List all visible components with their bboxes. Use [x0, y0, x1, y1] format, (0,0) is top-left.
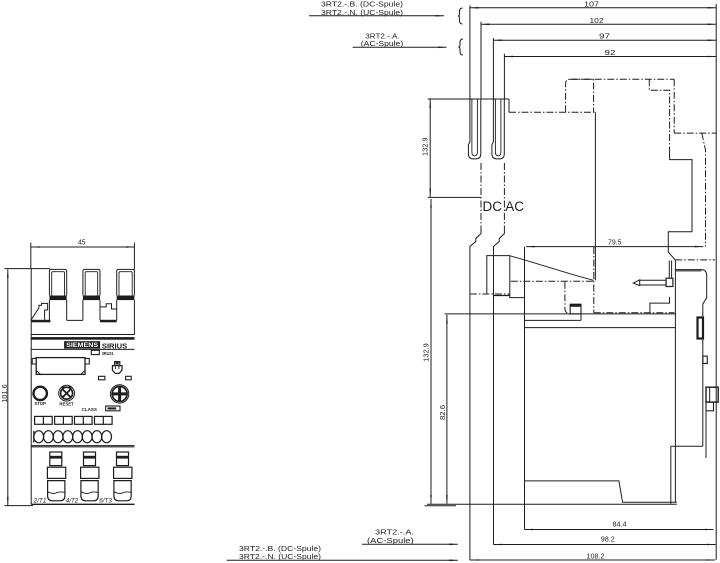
body top line	[31, 334, 134, 336]
contactor phantom: rounded block	[566, 79, 594, 112]
terminal column 2	[81, 452, 99, 501]
tower T2	[83, 269, 100, 295]
svg-text:STOP: STOP	[34, 401, 46, 406]
solid rear top contour	[668, 150, 692, 260]
staircase below pin	[650, 297, 670, 313]
dim 107	[470, 7, 716, 9]
terminal column 1	[47, 452, 65, 501]
DC coil clip (hook)	[468, 99, 480, 159]
rear solid edge of upper housing	[594, 112, 596, 280]
dim 92	[504, 56, 716, 58]
rear housing right edge	[674, 260, 676, 446]
right edge extension line	[715, 4, 717, 560]
DIN rail clip lower	[706, 387, 718, 402]
RESET button	[59, 385, 75, 401]
svg-text:3RT2.-.N. (UC-Spule): 3RT2.-.N. (UC-Spule)	[239, 552, 321, 561]
dimension 101.6 extension lines	[5, 269, 51, 506]
DC clip outer edge / extension to dim 102	[480, 22, 482, 99]
svg-text:45: 45	[78, 238, 86, 247]
terminal column 3	[114, 452, 132, 501]
dim 132.9 lower	[430, 199, 432, 504]
svg-text:2/T1: 2/T1	[33, 497, 47, 504]
contactor phantom right edge	[673, 79, 675, 133]
svg-text:101.6: 101.6	[0, 384, 9, 403]
label leader (AC)	[353, 46, 447, 48]
dim 79.5	[526, 246, 703, 248]
body bottom	[525, 481, 677, 502]
dim 82.6	[446, 315, 448, 504]
svg-text:97: 97	[599, 32, 610, 41]
contactor phantom step	[649, 79, 669, 150]
mounting plane line	[427, 503, 677, 505]
two small rectangles	[99, 376, 105, 380]
front panel lines of body	[524, 320, 675, 327]
extension line (coil face)	[428, 196, 481, 198]
svg-text:3RU21: 3RU21	[102, 351, 114, 356]
device left edge	[30, 269, 32, 505]
svg-text:CLASS: CLASS	[82, 407, 97, 412]
svg-text:3RT2.-.N. (UC-Spule): 3RT2.-.N. (UC-Spule)	[321, 8, 403, 17]
rear dash line	[675, 259, 715, 261]
rear foot	[671, 446, 676, 504]
dim 132.9 upper	[429, 100, 431, 197]
label leader (DC/UC)	[309, 15, 444, 17]
dimension 45 extension lines	[31, 243, 135, 271]
label window	[36, 358, 85, 375]
svg-text:(AC-Spule): (AC-Spule)	[367, 536, 414, 545]
svg-text:6/T3: 6/T3	[99, 497, 112, 504]
coil window bottom edge	[493, 295, 509, 297]
small box next to 3RU21	[91, 350, 99, 354]
brace 1	[458, 8, 463, 24]
pin neck to housing	[669, 261, 671, 279]
body top edge line (to 82.6 dim)	[445, 313, 676, 315]
ledge to body	[510, 294, 525, 298]
dimension 101.6 line	[7, 269, 9, 505]
adjustment dial	[110, 385, 128, 403]
valley line T1-T2	[67, 319, 83, 321]
svg-text:AC: AC	[505, 199, 524, 214]
front panel top thick band	[31, 337, 134, 340]
dimension 45 line	[31, 246, 135, 248]
CLASS value box	[106, 406, 120, 411]
coil window bottom phantom	[470, 293, 510, 295]
svg-text:DC: DC	[483, 199, 503, 214]
svg-text:108.2: 108.2	[587, 551, 605, 560]
phantom continuation	[593, 247, 595, 313]
DC variant front contour	[470, 227, 481, 560]
rear housing top	[675, 270, 706, 447]
svg-text:82.6: 82.6	[438, 405, 447, 420]
dim 98.2	[494, 544, 716, 546]
AC variant front contour	[494, 227, 505, 545]
SIEMENS logo box	[64, 341, 100, 348]
dim 102	[481, 23, 716, 25]
contactor phantom rail line	[674, 132, 716, 134]
STOP button	[34, 387, 47, 400]
brace 2	[458, 39, 463, 55]
wedge bottom phantom	[511, 280, 594, 282]
reset slide button	[570, 304, 581, 314]
svg-text:SIEMENS: SIEMENS	[66, 342, 98, 349]
svg-text:79.5: 79.5	[608, 237, 622, 246]
svg-text:4/T2: 4/T2	[66, 497, 79, 504]
svg-text:84.4: 84.4	[613, 520, 627, 529]
AC variant phantom edge	[503, 163, 505, 227]
contactor phantom top line	[570, 78, 674, 80]
bottom extension tick	[425, 505, 457, 507]
test pin base	[666, 278, 673, 286]
device bottom edge	[31, 503, 134, 505]
auto/manual selector icon	[115, 362, 120, 365]
contactor phantom face line	[509, 111, 595, 113]
svg-text:(AC-Spule): (AC-Spule)	[361, 39, 403, 48]
svg-text:132.9: 132.9	[421, 343, 430, 362]
release lever (left zigzag)	[31, 303, 47, 319]
DIN rail clip upper	[698, 318, 704, 339]
reset slide phantom	[565, 282, 570, 314]
DC variant phantom edge	[480, 163, 482, 227]
row of circles (current setting dial scale)	[34, 431, 112, 443]
AC coil clip (hook)	[492, 99, 504, 159]
step vertical	[580, 314, 582, 321]
svg-text:132.9: 132.9	[421, 138, 430, 157]
test pin shaft	[640, 280, 666, 285]
test pin tip (pointed)	[633, 280, 639, 286]
AC clip outer edge / extension to dim 92	[503, 54, 505, 99]
tower T3	[117, 269, 135, 295]
setting scale: row of paired squares	[35, 416, 113, 424]
svg-text:107: 107	[584, 0, 599, 9]
svg-text:92: 92	[605, 48, 616, 57]
tower T1 (terminal clamp)	[49, 269, 66, 295]
svg-text:98.2: 98.2	[601, 535, 615, 544]
body front edge	[524, 247, 526, 530]
top mating surface line	[428, 98, 509, 100]
phantom rail hook diagonal	[702, 133, 706, 247]
bottom label leader (DC/UC)	[227, 559, 458, 561]
phantom shelf	[594, 312, 675, 314]
coil window rectangle	[487, 256, 510, 294]
small tab	[703, 356, 708, 363]
line under logo row	[31, 348, 134, 350]
bottom label leader (AC)	[362, 543, 458, 545]
separator double line	[31, 446, 134, 447]
wedge diagonal (release slide)	[510, 256, 594, 280]
dim 108.2	[470, 559, 715, 561]
svg-text:SIRIUS: SIRIUS	[102, 341, 127, 350]
dim 84.4	[525, 529, 714, 531]
latch flag (T2-T3)	[100, 304, 117, 320]
svg-text:102: 102	[590, 16, 604, 25]
dim 97	[493, 39, 716, 41]
svg-text:RESET: RESET	[59, 401, 74, 406]
